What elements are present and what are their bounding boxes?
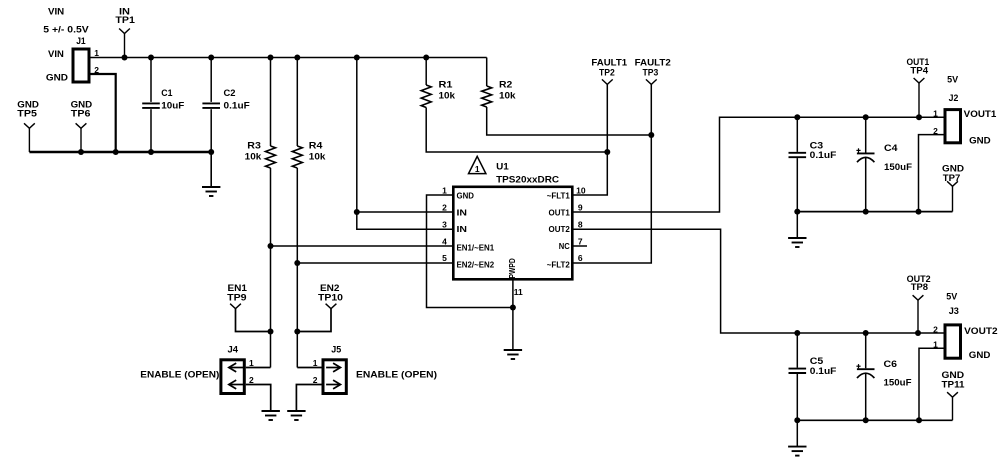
svg-text:NC: NC [559,241,570,251]
testpoint TP2 FAULT1 [591,57,627,84]
U1 pin 10 ~FLT1 [547,186,586,201]
svg-text:10k: 10k [245,151,262,162]
svg-text:5: 5 [442,253,447,263]
U1 pin 9 OUT1 [549,203,583,218]
connector J3 [945,292,998,361]
svg-text:2: 2 [933,324,938,334]
svg-text:R2: R2 [499,80,512,91]
svg-text:VIN: VIN [48,49,64,60]
label VIN source [43,7,89,36]
svg-text:2: 2 [249,375,254,385]
svg-text:VOUT2: VOUT2 [964,326,998,337]
svg-text:~FLT1: ~FLT1 [547,190,570,200]
svg-text:J1: J1 [76,36,86,47]
J2 pin 2 to ground rail [916,126,944,215]
svg-text:ENABLE (OPEN): ENABLE (OPEN) [140,369,219,380]
J5 arrow pin2 [326,380,340,389]
svg-text:10uF: 10uF [161,101,184,112]
label ENABLE (OPEN) right [356,369,437,380]
testpoint TP10 EN2 [318,283,343,309]
ground under J4 [262,411,280,420]
capacitor C1 10uF [142,55,184,156]
wire GND rail [29,149,211,155]
resistor R3 10k [245,55,276,368]
testpoint TP3 FAULT2 [635,57,671,84]
resistor R1 10k [421,55,607,153]
svg-text:10k: 10k [439,91,456,102]
svg-text:EN2/~EN2: EN2/~EN2 [457,259,495,269]
wire VIN top rail [91,57,487,59]
svg-text:GND: GND [46,72,68,83]
testpoint TP9 EN1 [227,283,248,309]
J5 pin 2 to ground [296,375,321,411]
svg-text:TPS20xxDRC: TPS20xxDRC [496,174,559,185]
svg-text:1: 1 [442,186,447,196]
wire J1 pin2 to GND rail [91,74,116,152]
svg-text:PWPD: PWPD [507,258,517,278]
U1 pin 4 EN1/~EN1 [442,236,494,252]
J5 arrow pin1 [326,363,340,372]
testpoint TP11 GND [942,370,966,421]
svg-text:10k: 10k [309,151,326,162]
svg-text:C6: C6 [884,359,898,370]
U1 pin 7 NC [559,236,583,251]
svg-text:VOUT1: VOUT1 [964,109,997,120]
svg-text:C1: C1 [161,88,173,99]
testpoint TP7 GND [942,164,964,212]
U1 pin 2 IN [442,203,467,218]
J5 pin 1 stub [297,358,321,368]
U1 pin 3 IN [442,219,467,234]
svg-text:1: 1 [933,109,938,119]
testpoint TP5 [17,99,39,152]
ground under C5 [788,420,806,455]
svg-text:IN: IN [457,207,468,217]
wire OUT1 ground rail [797,211,952,213]
svg-text:11: 11 [514,287,523,297]
svg-text:J4: J4 [228,345,239,356]
resistor R2 10k [482,58,652,136]
testpoint TP1 [115,6,135,60]
svg-text:IN: IN [457,224,468,234]
wire TP2 to U1 pin 10 [574,84,611,195]
ground under U1 pin11 [504,350,522,359]
svg-text:J3: J3 [949,306,959,317]
connector J4 [221,345,244,394]
wire EN2 net U1 pin5 [294,260,452,266]
svg-text:9: 9 [578,203,583,213]
capacitor C4 150uF polarized [856,114,912,214]
svg-text:C2: C2 [224,88,236,99]
wire U1 pin1 GND to pin11 node [427,195,513,308]
wire TP10 to EN2 net [294,309,331,335]
U1 pin 5 EN2/~EN2 [442,253,494,269]
svg-text:R3: R3 [247,140,261,151]
label ENABLE (OPEN) left [140,369,219,380]
svg-text:GND: GND [457,190,475,200]
testpoint TP6 [71,99,93,155]
resistor R4 10k [292,55,326,368]
svg-text:6: 6 [578,253,583,263]
connector J1 [46,36,89,83]
J1 pin 1 [94,48,99,58]
J4 pin 2 to ground [246,375,271,411]
svg-text:2: 2 [442,203,447,213]
wire OUT1 net U1 pin9 to J2 [574,117,944,212]
svg-text:J2: J2 [949,93,959,104]
svg-text:TP1: TP1 [115,15,135,26]
J3 pin 2 [933,324,938,334]
svg-text:GND: GND [969,350,991,361]
U1 pin 6 ~FLT2 [547,253,583,269]
svg-text:5V: 5V [946,292,958,303]
svg-text:150uF: 150uF [884,378,912,389]
svg-text:4: 4 [442,236,447,246]
wire U1 pin11 down [510,281,516,351]
U1 pin 11 PWPD [507,258,523,297]
svg-text:TP8: TP8 [911,282,928,293]
op-amp U1 TPS20xxDRC [453,161,572,279]
svg-text:C4: C4 [884,143,898,154]
wire TP9 to EN1 net [236,309,274,335]
svg-text:1: 1 [313,358,318,368]
svg-text:TP2: TP2 [599,68,615,79]
capacitor C3 0.1uF [789,114,837,214]
connector J5 [323,345,346,394]
U1 pin 1 GND [442,186,474,201]
svg-text:1: 1 [475,164,480,174]
wire IN vertical to U1 pins 2,3 [354,55,452,230]
svg-text:8: 8 [578,219,583,229]
capacitor C2 0.1uF [202,55,250,156]
wire U1 pin7 NC stub [574,245,588,247]
svg-text:10k: 10k [499,91,516,102]
testpoint TP4 OUT1 [907,57,930,120]
J4 arrow pin1 [229,363,243,372]
wire OUT2 ground rail [797,419,952,421]
svg-text:GND: GND [969,135,991,146]
svg-text:0.1uF: 0.1uF [810,366,837,377]
svg-text:5V: 5V [947,75,959,86]
svg-text:EN1/~EN1: EN1/~EN1 [457,242,495,252]
svg-text:1: 1 [249,358,254,368]
J1 pin 2 [94,65,99,75]
wire TP3 to U1 pin 6 [574,84,655,263]
svg-text:TP11: TP11 [942,380,966,391]
svg-text:TP6: TP6 [71,109,91,120]
svg-text:7: 7 [578,236,583,246]
svg-text:R1: R1 [439,80,454,91]
J4 arrow pin2 [229,380,243,389]
J3 pin 1 to ground rail [916,340,944,424]
ground under C2 [202,152,220,196]
svg-text:R4: R4 [309,140,323,151]
J2 pin 1 [933,109,938,119]
ground under J5 [287,411,305,420]
svg-text:TP3: TP3 [643,68,659,79]
svg-text:0.1uF: 0.1uF [224,101,250,112]
svg-text:0.1uF: 0.1uF [810,150,837,161]
ground under C3 [788,212,806,247]
svg-text:TP4: TP4 [910,65,928,76]
capacitor C5 0.1uF [789,330,837,423]
svg-text:OUT1: OUT1 [549,207,571,217]
svg-text:U1: U1 [496,161,509,172]
U1 pin 8 OUT2 [549,219,583,234]
J4 pin 1 stub [246,358,271,368]
svg-text:3: 3 [442,219,447,229]
svg-text:5 +/- 0.5V: 5 +/- 0.5V [43,24,89,35]
svg-text:TP10: TP10 [318,293,343,304]
svg-text:OUT2: OUT2 [549,224,571,234]
svg-text:ENABLE (OPEN): ENABLE (OPEN) [356,369,437,380]
svg-text:J5: J5 [331,345,342,356]
svg-text:~FLT2: ~FLT2 [547,259,570,269]
testpoint TP8 OUT2 [907,274,931,336]
wire EN1 net U1 pin4 [268,243,453,249]
svg-text:2: 2 [313,375,318,385]
svg-text:VIN: VIN [48,7,64,18]
svg-text:TP9: TP9 [227,293,247,304]
svg-text:1: 1 [94,48,99,58]
svg-text:10: 10 [576,186,586,196]
connector J2 [945,75,997,147]
warning triangle 1 [469,156,486,173]
svg-text:TP5: TP5 [17,109,37,120]
svg-text:150uF: 150uF [884,162,912,173]
wire OUT2 net U1 pin8 to J3 [574,229,944,333]
capacitor C6 150uF polarized [856,330,911,423]
